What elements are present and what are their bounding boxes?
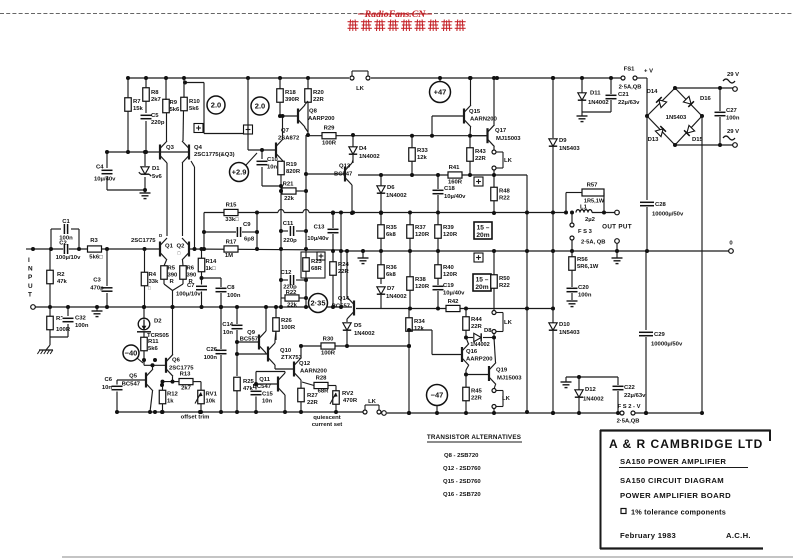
resistor R3 (88, 246, 102, 252)
wire R14 wires (201, 249, 203, 258)
wire R6 wires (182, 260, 185, 266)
wire LK mid wires (493, 288, 495, 311)
hop over x306 (303, 210, 309, 213)
svg-text:C32: C32 (75, 316, 87, 322)
wire D12 net (566, 376, 618, 378)
wire Q14 collector up (346, 251, 348, 297)
svg-text:RV1: RV1 (206, 392, 218, 398)
node bridge nodes (673, 86, 677, 90)
bridge arm D15 (675, 116, 702, 145)
wire rail R29 y135 (306, 135, 488, 137)
wire D12 wires (578, 377, 580, 390)
measure box 15-20m upper (474, 222, 492, 239)
terminal -V rail left (382, 411, 387, 416)
resistor R20 (305, 89, 312, 103)
svg-text:LK: LK (504, 158, 513, 164)
wire R20 wires (307, 78, 309, 89)
wire input line y249 (33, 248, 160, 250)
capacitor C11 (289, 225, 295, 237)
wire Q9 leads (265, 307, 267, 331)
svg-text:R42: R42 (448, 299, 460, 305)
wire Q3 base line (107, 151, 160, 153)
svg-text:C15: C15 (262, 392, 274, 398)
svg-text:2k7: 2k7 (181, 386, 192, 392)
capacitor C9 (236, 226, 242, 238)
ground 0V rail (358, 257, 369, 259)
node FS3 nodes (570, 211, 574, 215)
wire C4 wires (106, 152, 108, 168)
wire R43 wires (469, 136, 471, 148)
svg-text:D6: D6 (387, 185, 395, 191)
wire Q19 collector (494, 338, 496, 363)
wire Q3 emitter to Q1 (166, 163, 168, 236)
capacitor C13 (327, 228, 340, 234)
capacitor C1 (63, 223, 69, 235)
svg-text:22R: 22R (471, 396, 483, 402)
wire C6 wires (116, 380, 118, 385)
terminal 0V (729, 249, 734, 254)
page top dashed rule (0, 13, 793, 15)
diode D7 (377, 287, 385, 294)
svg-text:6k8: 6k8 (386, 232, 397, 238)
svg-text:5k6□: 5k6□ (89, 255, 103, 261)
transistor Q7 pnp (275, 143, 277, 158)
svg-text:Q4: Q4 (194, 145, 203, 151)
wire output gnd link (616, 243, 618, 251)
svg-text:C28: C28 (655, 202, 667, 208)
capacitor C18 (432, 189, 445, 195)
node gnd node (361, 249, 365, 253)
node emitter node (171, 305, 175, 309)
svg-text:BC557: BC557 (332, 304, 351, 310)
resistor R13 (179, 379, 193, 385)
resistor R48 (491, 187, 498, 201)
gain circle +47 (430, 82, 451, 103)
svg-text:10n: 10n (267, 165, 278, 171)
svg-text:1N5403: 1N5403 (559, 330, 580, 336)
svg-text:5k6: 5k6 (189, 106, 200, 112)
node input line nodes (49, 247, 53, 251)
svg-text:22R: 22R (307, 400, 319, 406)
svg-text:2µ2: 2µ2 (585, 217, 596, 223)
wire D6 wires (380, 175, 382, 186)
wire mid rail left y307 (33, 306, 352, 308)
svg-text:100R: 100R (281, 325, 296, 331)
preset RV1 (198, 390, 205, 404)
wire Q17 emitter (493, 147, 495, 150)
wire Q14 emitter down (346, 319, 348, 322)
svg-text:2SA872: 2SA872 (278, 136, 300, 142)
zener D1 (141, 167, 149, 174)
resistor R28 (314, 382, 328, 388)
resistor R9 (163, 99, 170, 113)
svg-text:D12: D12 (585, 387, 597, 393)
svg-text:OUT PUT: OUT PUT (602, 224, 632, 231)
capacitor C2 (63, 243, 69, 255)
wire vertical x553 lower (552, 331, 554, 413)
svg-text:12k: 12k (417, 155, 428, 161)
ground D12 (561, 381, 572, 383)
plus box bootstrap 1 (194, 124, 203, 133)
wire R13 wires (163, 381, 180, 383)
svg-text:100R: 100R (322, 141, 337, 147)
svg-text:+2.9: +2.9 (232, 168, 247, 177)
svg-text:47k: 47k (57, 279, 68, 285)
wire C21 wires (610, 78, 612, 94)
svg-text:R26: R26 (281, 318, 293, 324)
wire R7 wires (127, 78, 129, 98)
diode D5 (343, 323, 351, 330)
node x553 nodes (551, 76, 555, 80)
svg-text:LK: LK (502, 396, 511, 402)
transistor Q15 (463, 109, 465, 124)
capacitor C21 (605, 94, 618, 100)
svg-text:2·35: 2·35 (310, 299, 325, 308)
svg-text:D16: D16 (700, 96, 712, 102)
resistor R45 (463, 387, 470, 401)
transistor Q2 (188, 242, 190, 257)
diode D4 (349, 147, 357, 154)
svg-text:C18: C18 (444, 186, 456, 192)
resistor R7 (125, 98, 132, 112)
wire R39 wires (437, 213, 439, 226)
capacitor C27 (714, 111, 727, 117)
wire vertical feed x248 (247, 78, 249, 150)
svg-text:C12: C12 (281, 270, 293, 276)
svg-text:D1: D1 (152, 166, 160, 172)
wire FS3 wires (571, 213, 573, 224)
svg-text:Q2: Q2 (177, 244, 186, 250)
wire Q16 emitter (466, 366, 469, 371)
wire feedback line y249 (189, 249, 341, 250)
node bias cluster nodes (331, 211, 335, 215)
node output nodes (564, 211, 568, 215)
wire Q17 collector (493, 78, 495, 125)
node upper output nodes (469, 76, 473, 80)
wire Q7 base wire (248, 149, 276, 151)
svg-text:Q9: Q9 (247, 330, 256, 336)
transistor Q14 pnp (353, 301, 355, 316)
svg-text:C7: C7 (187, 283, 195, 289)
svg-text:15 –: 15 – (477, 225, 490, 232)
node bootstrap tap (183, 81, 187, 85)
transistor Q11 (277, 377, 279, 392)
wire D5 wires (346, 331, 348, 346)
wire D1 wires (144, 152, 146, 166)
svg-text:100R: 100R (321, 351, 336, 357)
resistor R21 (282, 188, 296, 194)
svg-text:29 V: 29 V (727, 72, 739, 78)
svg-text:C1: C1 (62, 219, 70, 225)
wire R22 link (281, 297, 285, 299)
gain circle 2.0 a (207, 96, 225, 114)
wire C15 wires (255, 384, 257, 390)
svg-text:Q1: Q1 (165, 244, 174, 250)
svg-text:160R: 160R (448, 180, 463, 186)
svg-text:AARP200: AARP200 (308, 116, 335, 122)
svg-text:D9: D9 (559, 138, 567, 144)
wire VAS vertical x306 (305, 135, 307, 307)
transistor Q16 pnp (461, 347, 463, 362)
svg-text:390R: 390R (285, 97, 300, 103)
svg-text:15k: 15k (133, 106, 144, 112)
svg-text:100n: 100n (726, 116, 740, 122)
capacitor C12 (289, 274, 295, 286)
resistor R42 (446, 305, 460, 311)
svg-text:D5: D5 (354, 323, 362, 329)
svg-text:February 1983: February 1983 (620, 531, 676, 540)
wire Q4 second leg (191, 161, 195, 167)
wire Q12 emitter (300, 380, 302, 388)
wire Q19 emitter (494, 385, 496, 390)
svg-text:Q11: Q11 (259, 377, 271, 383)
resistor R41 (448, 172, 462, 178)
svg-text:1N4002: 1N4002 (359, 154, 380, 160)
wire x341 vertical (340, 213, 342, 308)
transistor Q17 (486, 128, 488, 143)
node cluster nodes (235, 305, 239, 309)
wire Q10 emitter (274, 365, 276, 369)
wire R8-C5 wires (145, 78, 147, 88)
bridge arm D14 (647, 88, 675, 116)
svg-text:22k: 22k (287, 303, 298, 309)
wire mid rail right y308 (356, 308, 553, 310)
wire C13 wires (332, 213, 334, 229)
diode D6 (377, 186, 385, 193)
resistor R11 (141, 337, 148, 351)
svg-text:R2: R2 (57, 272, 65, 278)
svg-text:R44: R44 (471, 317, 483, 323)
svg-text:D11: D11 (590, 91, 601, 97)
node Q3 base node (126, 150, 130, 154)
svg-text:MJ15003: MJ15003 (497, 376, 522, 382)
wire Q13 collector (352, 160, 353, 163)
ground D1 (140, 192, 151, 194)
svg-text:C29: C29 (654, 332, 666, 338)
wire +V top rail (128, 77, 349, 79)
capacitor C28 (639, 201, 655, 207)
resistor R26 (273, 318, 280, 332)
wire -V right vertical (701, 116, 703, 413)
wire bootstrap loop (185, 82, 204, 84)
wire C12 wires (281, 279, 288, 281)
link LK bottom rail (363, 410, 367, 414)
capacitor C32 (62, 317, 75, 323)
wire Q16 base jog (409, 329, 432, 331)
resistor R27 (298, 388, 305, 402)
svg-text:P: P (28, 274, 33, 281)
svg-text:1k□: 1k□ (206, 266, 217, 272)
svg-text:R22: R22 (499, 196, 511, 202)
wire C11 wires (281, 230, 288, 232)
svg-text:120R: 120R (443, 272, 458, 278)
svg-text:22R: 22R (313, 97, 325, 103)
svg-text:100n: 100n (578, 293, 592, 299)
svg-text:LK: LK (356, 86, 365, 92)
svg-text:2k7: 2k7 (151, 97, 162, 103)
wire D4 wires (352, 135, 354, 147)
wire R40 C19 wires (437, 251, 439, 265)
svg-text:R43: R43 (475, 149, 487, 155)
svg-text:1N4002: 1N4002 (470, 342, 490, 348)
resistor R29 (322, 133, 336, 139)
svg-text:1% tolerance components: 1% tolerance components (631, 508, 726, 517)
svg-text:100µ/10v: 100µ/10v (56, 255, 81, 261)
wire R25 wires (236, 391, 238, 412)
wire C1 loop (50, 229, 52, 249)
link LK top rail (350, 76, 354, 80)
wire D7 wires (380, 295, 382, 309)
wire feedback verticals (203, 213, 205, 250)
diode D12 (575, 390, 583, 397)
svg-text:6k8: 6k8 (386, 272, 397, 278)
wire Q13 base (306, 173, 345, 175)
svg-text:10n: 10n (102, 385, 113, 391)
node top rail joints (126, 76, 130, 80)
svg-text:2SC1775(&Q3): 2SC1775(&Q3) (194, 152, 235, 158)
capacitor C8 (215, 287, 228, 293)
wire C9 line (204, 231, 236, 233)
svg-text:2.0: 2.0 (211, 101, 221, 110)
gain circle 2.0 b (251, 97, 269, 115)
svg-text:10000µ/50v: 10000µ/50v (651, 342, 683, 348)
node bias cluster nodes (142, 305, 146, 309)
svg-text:2.0: 2.0 (255, 102, 265, 111)
svg-text:C19: C19 (443, 283, 455, 289)
svg-text:10µ/40v: 10µ/40v (444, 194, 466, 200)
wire R24 wires (332, 251, 334, 262)
svg-text:22k: 22k (284, 196, 295, 202)
wire R33 wires (411, 135, 413, 148)
wire Q5 collector (152, 365, 154, 369)
wire Q11 collector loop (284, 372, 286, 374)
capacitor C22 (612, 385, 625, 391)
svg-text:100n: 100n (75, 323, 89, 329)
transistor Q9 (258, 335, 260, 350)
svg-text:C11: C11 (283, 221, 294, 227)
capacitor C5 (140, 114, 153, 120)
svg-text:C6: C6 (104, 377, 112, 383)
node Q14 nodes (345, 249, 349, 253)
resistor R19 (278, 161, 285, 175)
svg-text:33k□: 33k□ (225, 217, 239, 223)
wire C14 wires (236, 307, 238, 324)
svg-text:R40: R40 (443, 265, 455, 271)
svg-text:1N5403: 1N5403 (559, 146, 580, 152)
wire Q16 collector (466, 338, 469, 345)
node -V rail nodes (435, 411, 439, 415)
resistor R1 (47, 316, 54, 330)
wire rail y175 (358, 174, 527, 176)
capacitor C7 (195, 285, 208, 291)
transistor Q12 (293, 362, 295, 377)
svg-text:22R: 22R (471, 324, 483, 330)
svg-text:R: R (170, 279, 175, 285)
resistor R22 (285, 295, 299, 301)
transistor Q5 (145, 373, 147, 388)
svg-text:22µ/63v: 22µ/63v (618, 100, 640, 106)
svg-text:5v6: 5v6 (152, 174, 163, 180)
capacitor C10 (256, 160, 269, 166)
svg-text:R8: R8 (151, 90, 159, 96)
svg-text:R39: R39 (443, 225, 455, 231)
svg-text:D8: D8 (484, 328, 492, 334)
node VAS nodes (260, 148, 264, 152)
resistor R12 (159, 390, 166, 404)
svg-text:L1: L1 (580, 205, 588, 211)
wire -V rail right y413 (387, 412, 620, 414)
svg-text:1N5403: 1N5403 (666, 115, 687, 121)
wire C22 wires (617, 377, 619, 385)
wire R4 wires (144, 249, 146, 272)
wire vertical x553 mid (552, 147, 554, 323)
svg-text:R13: R13 (180, 372, 192, 378)
diode D8 (474, 333, 481, 341)
wire R12 wires (162, 382, 164, 391)
diode D9 (549, 139, 557, 146)
svg-text:A.C.H.: A.C.H. (726, 531, 751, 540)
wire R18 wires (279, 78, 281, 89)
node lower output nodes (464, 336, 468, 340)
svg-text:10µ/40v: 10µ/40v (307, 236, 329, 242)
link LK mid (492, 311, 496, 315)
resistor R23 (303, 258, 310, 272)
svg-text:2·5A, QB: 2·5A, QB (581, 240, 605, 246)
svg-text:2·5A,QB: 2·5A,QB (617, 419, 640, 425)
svg-text:R7: R7 (133, 99, 141, 105)
svg-text:470R: 470R (343, 398, 358, 404)
svg-text:U: U (28, 283, 33, 290)
svg-text:100R: 100R (56, 327, 71, 333)
resistor R18 (277, 89, 284, 103)
svg-text:68R: 68R (318, 389, 330, 395)
ground output (612, 257, 623, 259)
svg-text:R12: R12 (167, 392, 179, 398)
ground mid rail (92, 310, 103, 312)
svg-text:Q14: Q14 (338, 296, 350, 302)
node feedback nodes (202, 230, 206, 234)
page bottom edge line (62, 556, 793, 558)
svg-text:R37: R37 (415, 225, 427, 231)
svg-text:10k: 10k (206, 399, 217, 405)
wire C8 wires (220, 278, 222, 287)
resistor R15 (224, 209, 238, 215)
transistor Q1 (159, 242, 161, 257)
svg-text:R22: R22 (499, 283, 511, 289)
resistor R30 (321, 343, 335, 349)
wire bridge AC bottom (675, 144, 733, 146)
wire R48 wires (493, 201, 495, 213)
svg-text:R18: R18 (285, 90, 297, 96)
svg-text:TRANSISTOR ALTERNATIVES: TRANSISTOR ALTERNATIVES (427, 434, 521, 441)
wire bridge AC top (675, 87, 733, 89)
svg-text:POWER AMPLIFIER BOARD: POWER AMPLIFIER BOARD (620, 491, 731, 500)
capacitor C4 (101, 169, 114, 175)
svg-text:100µ/10v: 100µ/10v (176, 292, 201, 298)
gain circle +2.9 (230, 163, 249, 182)
svg-text:F S 3: F S 3 (578, 229, 593, 235)
svg-text:R19: R19 (286, 162, 298, 168)
svg-text:□: □ (178, 251, 181, 256)
wire Q10 base wire (237, 353, 268, 355)
svg-text:68R: 68R (311, 266, 323, 272)
svg-text:C3: C3 (93, 278, 101, 284)
svg-text:10000µ/50v: 10000µ/50v (652, 212, 684, 218)
link LK Q19 (492, 389, 496, 393)
svg-text:R24: R24 (338, 262, 350, 268)
svg-text:22R: 22R (475, 156, 487, 162)
wire C18 wires (437, 175, 439, 189)
